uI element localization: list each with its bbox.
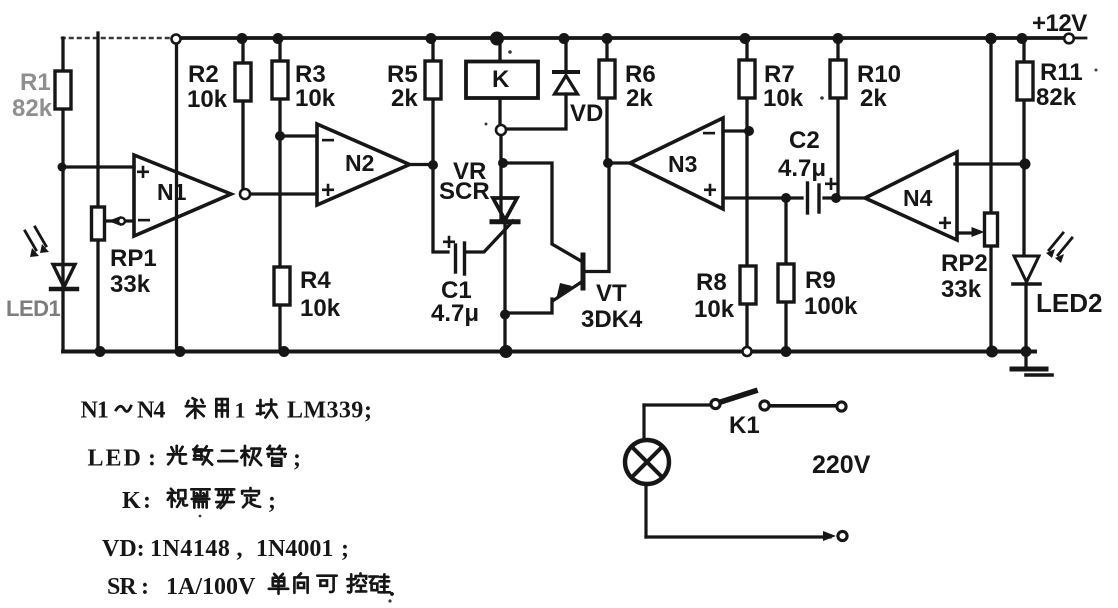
svg-text::: : (141, 574, 149, 600)
svg-text::: : (143, 488, 151, 514)
svg-text:10k: 10k (187, 86, 228, 113)
svg-text:+: + (321, 177, 335, 204)
svg-text:LM339: LM339 (287, 398, 364, 424)
svg-text:N3: N3 (668, 151, 697, 177)
svg-text:4.7μ: 4.7μ (431, 300, 479, 327)
svg-text:−: − (321, 127, 335, 154)
svg-text:R1: R1 (20, 69, 51, 96)
svg-text:+: + (938, 210, 952, 237)
svg-text:100k: 100k (804, 293, 858, 320)
svg-text:2k: 2k (391, 85, 418, 112)
svg-text:;: ; (341, 536, 349, 562)
svg-text:10k: 10k (763, 85, 804, 112)
svg-text:R6: R6 (625, 61, 656, 88)
svg-text:+: + (703, 177, 717, 204)
svg-text:R9: R9 (805, 267, 836, 294)
svg-text:−: − (137, 207, 151, 234)
svg-text:C2: C2 (789, 127, 820, 154)
svg-text:+: + (824, 171, 838, 198)
svg-text:33k: 33k (941, 276, 982, 303)
svg-text:−: − (702, 120, 716, 147)
svg-text:,: , (237, 536, 243, 562)
svg-text:LED2: LED2 (1036, 288, 1102, 318)
svg-text:R11: R11 (1040, 59, 1083, 86)
svg-text:VD:: VD: (102, 536, 145, 562)
svg-text:RP1: RP1 (110, 245, 157, 272)
svg-text::: : (148, 446, 156, 472)
svg-text:N4: N4 (903, 185, 933, 211)
svg-text:+12V: +12V (1032, 10, 1087, 37)
svg-text:LED: LED (88, 446, 143, 472)
svg-text:K: K (122, 488, 141, 514)
svg-text:1: 1 (235, 398, 246, 423)
svg-text:220V: 220V (812, 451, 871, 479)
svg-text:+: + (442, 229, 456, 256)
svg-text:10k: 10k (694, 296, 735, 323)
svg-text:LED1: LED1 (6, 296, 61, 321)
svg-text:R8: R8 (696, 269, 727, 296)
svg-text:VT: VT (596, 280, 627, 307)
svg-text:2k: 2k (626, 85, 653, 112)
svg-text:10k: 10k (295, 85, 336, 112)
svg-text:R3: R3 (295, 61, 326, 88)
svg-text:1N4001: 1N4001 (256, 536, 333, 562)
svg-text:2k: 2k (860, 85, 887, 112)
svg-text:10k: 10k (300, 295, 341, 322)
svg-text:1A/100V: 1A/100V (166, 574, 256, 600)
svg-text:82k: 82k (1036, 84, 1077, 111)
svg-text:;: ; (293, 446, 301, 472)
svg-text:1N4148: 1N4148 (150, 536, 230, 562)
svg-text:N4: N4 (137, 398, 165, 424)
svg-text:RP2: RP2 (941, 250, 988, 277)
svg-text:R10: R10 (857, 61, 901, 88)
svg-text:R7: R7 (764, 61, 795, 88)
svg-text:.: . (389, 576, 395, 602)
svg-text:R2: R2 (188, 61, 219, 88)
svg-text:33k: 33k (110, 271, 151, 298)
svg-text:;: ; (364, 398, 372, 424)
svg-text:SR: SR (107, 574, 137, 600)
svg-text:N1: N1 (81, 398, 108, 424)
svg-text:R5: R5 (387, 61, 418, 88)
svg-text:4.7μ: 4.7μ (778, 155, 826, 182)
svg-text:;: ; (268, 488, 276, 514)
svg-text:K1: K1 (729, 412, 760, 439)
svg-text:SCR: SCR (439, 178, 490, 205)
svg-text:R4: R4 (300, 267, 331, 294)
svg-text:K: K (492, 66, 510, 93)
svg-text:VD: VD (570, 100, 603, 127)
svg-text:N1: N1 (157, 179, 187, 205)
svg-text:3DK4: 3DK4 (581, 306, 643, 333)
svg-text:N2: N2 (345, 150, 374, 176)
svg-text:82k: 82k (12, 95, 53, 122)
svg-text:+: + (136, 159, 150, 186)
